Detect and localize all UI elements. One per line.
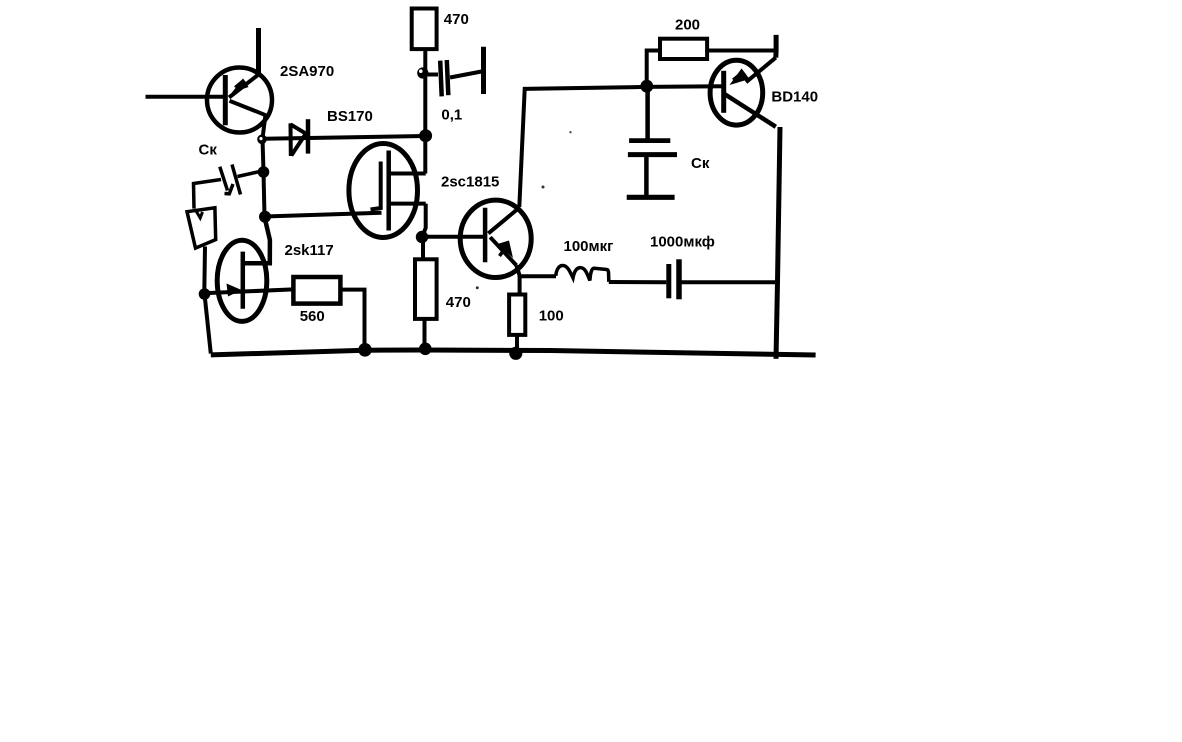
wire base of Q1: [146, 95, 227, 99]
wire 2sc1815 emitter down to R4: [518, 275, 522, 295]
wire right vertical (BD140 collector): [776, 127, 780, 359]
node ring A (collector/diode): [257, 135, 267, 145]
node rail at R3: [419, 343, 432, 356]
crystal box X1: [187, 208, 216, 248]
node rail at R4: [509, 347, 522, 360]
svg-text:2SA970: 2SA970: [280, 63, 334, 80]
wire main mid vertical: [423, 49, 427, 174]
transistor Q4 2sk117: [203, 217, 293, 321]
node gate of 2sk117: [199, 288, 211, 300]
svg-text:100: 100: [539, 307, 564, 324]
wire to BS170 gate: [265, 213, 382, 217]
resistor R4 100: [509, 295, 525, 335]
svg-text:BS170: BS170: [327, 108, 373, 125]
svg-text:2sk117: 2sk117: [285, 242, 334, 259]
wire R4 to rail: [515, 335, 519, 353]
capacitor C1 0,1: [427, 47, 484, 97]
capacitor Ck trimmer (left): [194, 165, 263, 209]
wire R2 right to emitter stub: [707, 49, 777, 53]
wire collector of Q1 down left vertical: [263, 115, 266, 217]
capacitor C3 1000mkf: [669, 259, 679, 299]
wire gate node down to rail: [205, 294, 211, 354]
wire R2 left to node: [647, 51, 660, 81]
node rail at 560: [358, 343, 372, 357]
wire 2sc1815 emitter right: [518, 274, 556, 278]
svg-text:1000мкф: 1000мкф: [650, 234, 715, 251]
svg-text:470: 470: [446, 294, 471, 311]
transistor Q2 BS170 mosfet: [349, 144, 426, 238]
resistor R2 200: [660, 39, 707, 59]
svg-text:560: 560: [300, 308, 325, 325]
svg-text:470: 470: [444, 11, 469, 28]
node at gate wire / mosfet wire junction: [259, 211, 271, 223]
diode D1: [291, 119, 309, 156]
wire node down to R3: [421, 237, 425, 260]
speck 3: [476, 286, 479, 289]
wire bottom rail: [211, 350, 816, 355]
transistor Q5 BD140: [710, 58, 776, 127]
wire 2sc1815 collector up and across: [519, 86, 723, 207]
resistor R1 470 (top): [412, 9, 437, 50]
svg-text:BD140: BD140: [771, 89, 818, 106]
inductor L1 100mkg: [556, 265, 609, 281]
speck 2: [542, 186, 545, 189]
svg-text:Ск: Ск: [199, 142, 218, 159]
wire BD140 emitter stub up: [773, 35, 778, 58]
node at diode/drain junction: [419, 129, 432, 142]
wire node to 2sc1815 base: [422, 235, 484, 239]
wire inductor to C3: [609, 280, 667, 284]
capacitor C2 Ck (right): [627, 86, 677, 197]
wire emitter top of Q1: [256, 28, 261, 76]
svg-text:100мкг: 100мкг: [564, 238, 614, 255]
speck 1: [569, 131, 571, 133]
transistor Q1 2SA970: [207, 68, 272, 133]
svg-text:200: 200: [675, 17, 700, 34]
resistor R5 560: [293, 277, 340, 304]
wire diode anode line: [264, 136, 425, 139]
wire C3 to right vertical: [682, 280, 779, 284]
wire box to gate node: [202, 247, 207, 294]
node top junction: [640, 80, 653, 93]
transistor Q3 2sc1815: [460, 200, 531, 277]
node ring B (resistor/cap junction): [417, 67, 428, 78]
svg-text:0,1: 0,1: [441, 107, 462, 124]
node at Ck right: [258, 166, 270, 178]
svg-text:Ск: Ск: [691, 155, 710, 172]
wire 560 right down to rail: [340, 290, 364, 351]
resistor R3 470 (lower): [415, 259, 437, 319]
svg-text:2sc1815: 2sc1815: [441, 173, 499, 190]
node below BS170 source: [416, 231, 428, 243]
wire R3 to rail: [423, 319, 427, 350]
